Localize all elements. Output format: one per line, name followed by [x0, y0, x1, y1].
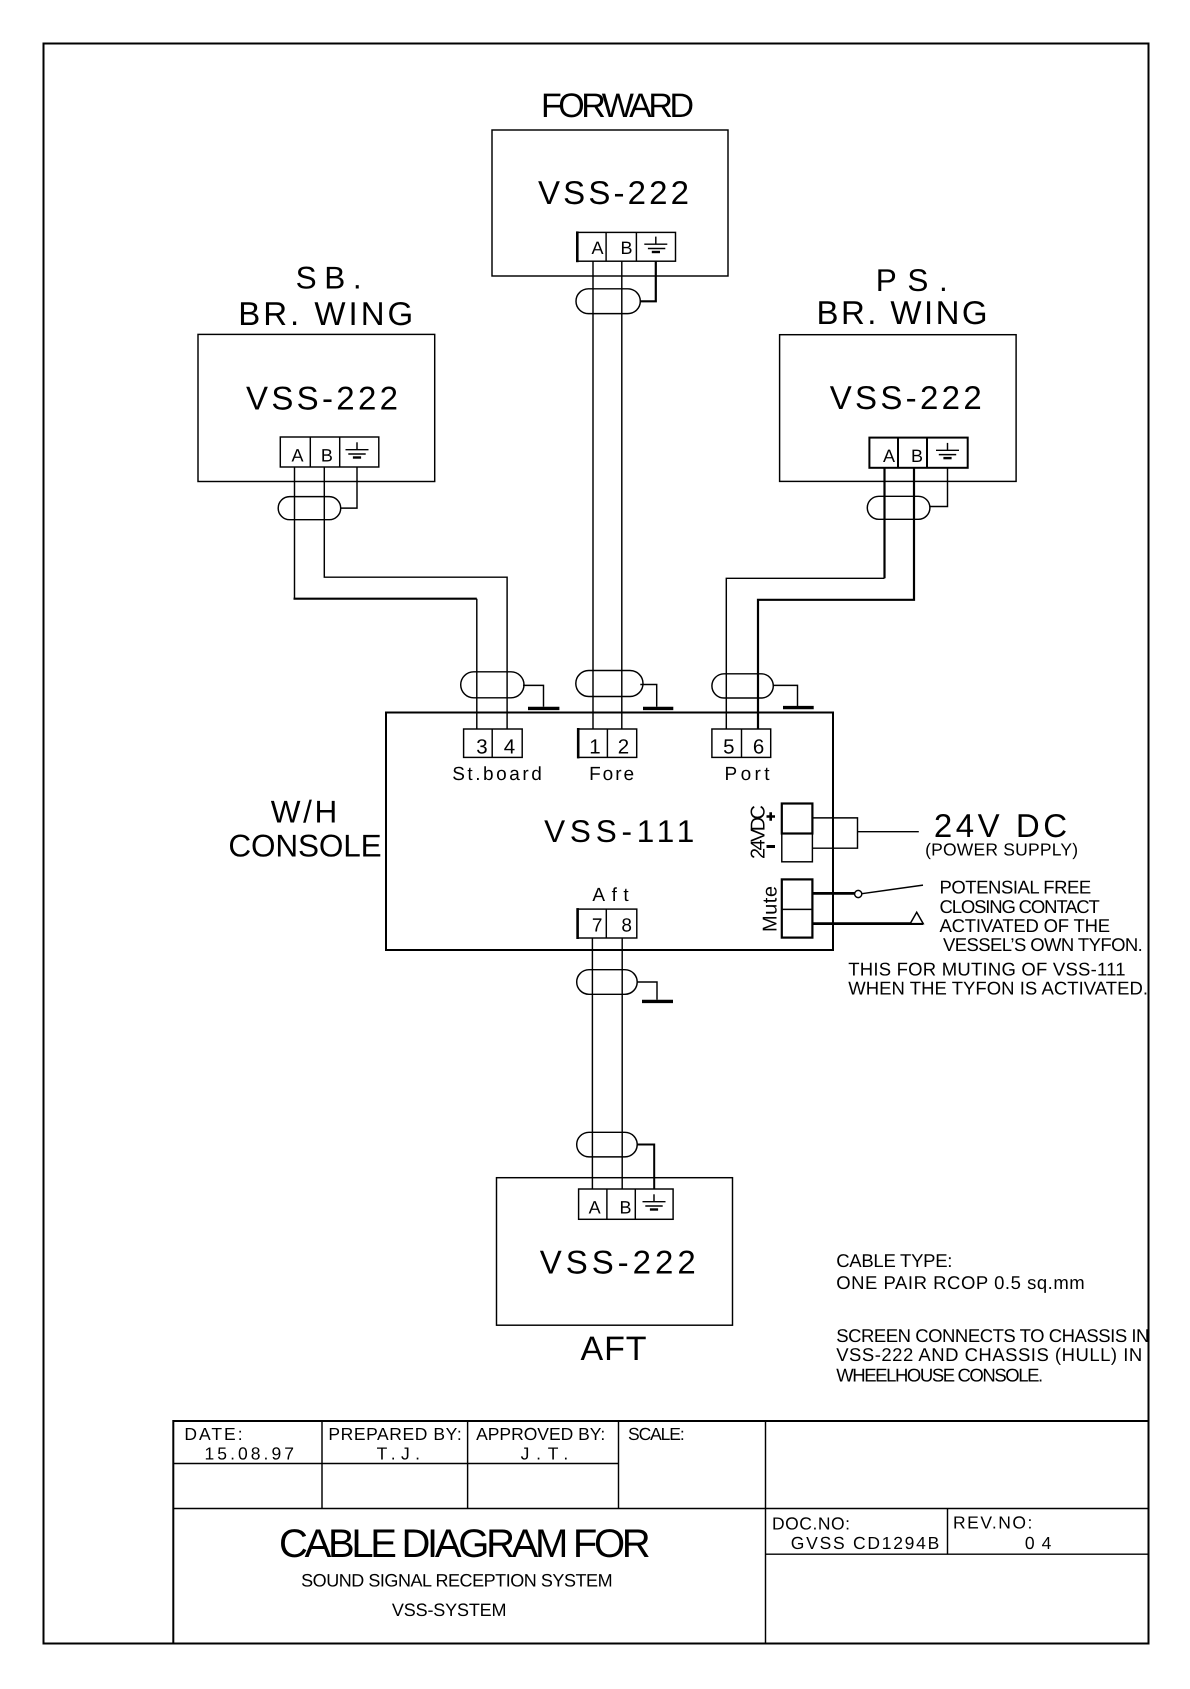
svg-text:Mute: Mute: [760, 886, 782, 932]
svg-text:VSS-222 AND CHASSIS (HULL) IN: VSS-222 AND CHASSIS (HULL) IN: [836, 1344, 1142, 1365]
wire port shield to screen oval: [930, 468, 948, 507]
svg-text:DATE:: DATE:: [184, 1424, 242, 1444]
svg-text:B: B: [619, 1198, 631, 1218]
terminal block 3 4: [464, 729, 523, 757]
svg-text:B: B: [911, 446, 923, 466]
cable screen oval aft lower: [577, 1132, 638, 1157]
unit VSS-222 forward box: [492, 130, 728, 276]
label minus: [767, 845, 776, 848]
svg-text:3: 3: [476, 735, 487, 758]
svg-text:SOUND SIGNAL RECEPTION SYSTEM: SOUND SIGNAL RECEPTION SYSTEM: [301, 1571, 612, 1591]
note potential free contact: [848, 877, 1148, 999]
terminal block 1 2: [578, 728, 637, 758]
wire aft shield to terminal gnd: [637, 1145, 654, 1190]
svg-text:ONE PAIR RCOP 0.5 sq.mm: ONE PAIR RCOP 0.5 sq.mm: [836, 1272, 1084, 1293]
terminal Mute cells: [782, 879, 813, 937]
wire console 7 to aft A: [591, 938, 593, 1189]
ground symbol in starboard terminal: [346, 442, 369, 457]
svg-text:CONSOLE: CONSOLE: [228, 828, 381, 864]
cable screen oval port: [867, 496, 930, 519]
svg-text:APPROVED BY:: APPROVED BY:: [476, 1424, 605, 1444]
svg-text:ACTIVATED OF THE: ACTIVATED OF THE: [940, 915, 1111, 936]
svg-text:1: 1: [589, 735, 600, 758]
svg-text:A: A: [883, 446, 895, 466]
svg-text:B: B: [321, 446, 333, 466]
svg-text:VESSEL’S OWN TYFON.: VESSEL’S OWN TYFON.: [943, 934, 1143, 955]
wire 24VDC lead: [858, 831, 919, 833]
wire forward A down to console terminal 1: [592, 261, 594, 729]
terminal block forward A B gnd: [577, 231, 675, 262]
terminal block starboard A B gnd: [280, 437, 379, 467]
svg-text:BR. WING: BR. WING: [817, 294, 988, 331]
wire starboard shield to screen oval: [341, 467, 357, 508]
svg-text:Port: Port: [725, 764, 771, 785]
terminal block 7 8: [578, 908, 637, 939]
unit VSS-222 starboard box: [198, 334, 435, 481]
svg-text:W/H: W/H: [271, 793, 338, 829]
terminal 24VDC minus cell: [782, 834, 813, 862]
wire mute contact top: [812, 892, 854, 895]
terminal block port A B gnd: [869, 438, 967, 468]
cable screen oval fore console: [576, 671, 643, 697]
svg-text:DOC.NO:: DOC.NO:: [772, 1514, 850, 1534]
svg-text:AFT: AFT: [581, 1330, 647, 1368]
unit VSS-222 aft box: [497, 1178, 733, 1326]
svg-text:CABLE DIAGRAM FOR: CABLE DIAGRAM FOR: [279, 1522, 651, 1566]
svg-text:CLOSING CONTACT: CLOSING CONTACT: [940, 896, 1100, 917]
wire forward B down to console terminal 2: [621, 261, 623, 729]
svg-text:SCREEN CONNECTS TO CHASSIS IN: SCREEN CONNECTS TO CHASSIS IN: [836, 1325, 1149, 1346]
wire starboard B to console terminal 4: [324, 467, 507, 729]
svg-text:Fore: Fore: [589, 764, 634, 785]
svg-text:GVSS CD1294B: GVSS CD1294B: [791, 1533, 940, 1553]
wire port A to console terminal 5: [883, 468, 885, 579]
svg-text:A: A: [589, 1198, 601, 1218]
chassis ground port: [773, 685, 798, 706]
svg-text:POTENSIAL FREE: POTENSIAL FREE: [940, 877, 1092, 898]
terminal block 5 6: [712, 729, 771, 757]
ground symbol in port terminal: [936, 443, 959, 458]
ground symbol in aft terminal: [643, 1194, 666, 1209]
wire port B to console terminal 6: [758, 468, 914, 729]
svg-text:BR. WING: BR. WING: [238, 295, 413, 332]
terminal block aft A B gnd: [579, 1189, 674, 1219]
svg-text:PREPARED BY:: PREPARED BY:: [328, 1424, 461, 1444]
svg-text:VSS-SYSTEM: VSS-SYSTEM: [392, 1600, 507, 1620]
wire console 8 to aft B: [621, 938, 623, 1189]
note cable type: [836, 1250, 1084, 1293]
cable screen oval port console: [712, 674, 773, 698]
chassis ground fore: [640, 685, 656, 707]
svg-text:WHEN THE TYFON IS ACTIVATED.: WHEN THE TYFON IS ACTIVATED.: [848, 978, 1148, 999]
terminal 24VDC plus cell: [782, 804, 813, 834]
title block texts: [184, 1424, 1051, 1553]
cable screen oval starboard: [278, 497, 341, 520]
svg-text:A: A: [591, 238, 603, 258]
svg-text:(POWER SUPPLY): (POWER SUPPLY): [925, 840, 1078, 860]
svg-text:4: 4: [504, 735, 515, 758]
svg-text:7: 7: [592, 916, 603, 937]
unit VSS-111 console box: [386, 713, 833, 951]
cable screen oval aft upper: [577, 970, 638, 995]
wire forward shield to screen oval: [641, 261, 656, 301]
cable screen oval st.board console: [461, 672, 524, 698]
svg-text:CABLE TYPE:: CABLE TYPE:: [836, 1250, 952, 1271]
svg-text:8: 8: [621, 916, 632, 937]
svg-text:SCALE:: SCALE:: [628, 1424, 685, 1444]
switch contact triangle: [910, 912, 923, 923]
svg-text:Aft: Aft: [592, 885, 629, 906]
label plus: [767, 812, 776, 820]
wire mute contact bottom: [812, 922, 923, 925]
svg-text:THIS FOR MUTING OF VSS-111: THIS FOR MUTING OF VSS-111: [848, 959, 1125, 980]
svg-text:B: B: [620, 238, 632, 258]
svg-text:WHEELHOUSE CONSOLE.: WHEELHOUSE CONSOLE.: [836, 1365, 1043, 1386]
wire 24VDC bracket: [812, 818, 857, 848]
title block frame: [173, 1421, 1148, 1644]
note screen connects: [836, 1325, 1149, 1386]
chassis ground st.board: [523, 685, 544, 706]
svg-text:A: A: [291, 446, 303, 466]
unit VSS-222 port box: [780, 335, 1017, 482]
cable screen oval forward: [576, 289, 640, 314]
svg-text:6: 6: [753, 735, 764, 758]
chassis ground aft cable: [637, 982, 657, 1000]
svg-text:24VDC: 24VDC: [748, 805, 770, 859]
switch contact circle: [855, 890, 862, 897]
title block inner lines: [173, 1421, 1148, 1644]
svg-text:5: 5: [723, 735, 734, 758]
switch contact arm: [862, 885, 923, 894]
svg-text:2: 2: [618, 735, 629, 758]
svg-text:FORWARD: FORWARD: [541, 87, 694, 125]
svg-text:REV.NO:: REV.NO:: [953, 1513, 1032, 1533]
ground symbol in forward terminal: [644, 237, 667, 252]
wire starboard A to console terminal 3: [294, 467, 296, 599]
